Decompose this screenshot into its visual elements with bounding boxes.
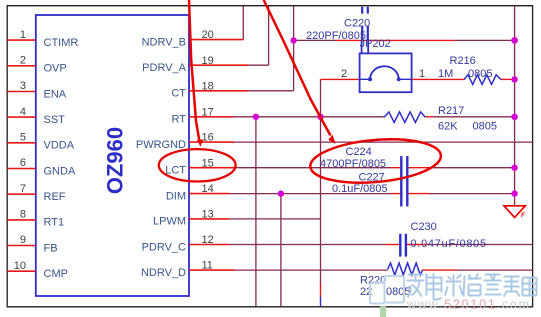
capacitor C230	[400, 221, 486, 257]
wire mid drop vertical x280	[280, 194, 282, 307]
resistor R220	[360, 263, 422, 298]
wire top net horizontal y40 maroon left	[294, 39, 336, 41]
wire LPWM row maroon to x320	[229, 218, 321, 220]
svg-text:6: 6	[20, 157, 26, 169]
pin 1 CTIMR	[7, 29, 78, 49]
wire right bus vertical x514	[514, 6, 516, 206]
svg-text:VDDA: VDDA	[44, 140, 75, 152]
svg-text:OVP: OVP	[44, 63, 67, 75]
pin 6 GNDA	[7, 157, 76, 177]
svg-text:19: 19	[202, 55, 214, 67]
capacitor C224 label	[320, 146, 386, 170]
wire C230 row to frame maroon	[429, 244, 533, 246]
wire pin19 riser to top rail	[268, 6, 270, 65]
svg-text:GNDA: GNDA	[44, 165, 76, 177]
pin 7 REF	[7, 183, 66, 203]
wire R220 right lead red	[422, 269, 457, 271]
svg-text:4: 4	[20, 106, 26, 118]
watermark logo square left	[370, 282, 385, 303]
wire pin20 riser to top rail	[242, 6, 244, 40]
pin 12 PDRV_C	[142, 234, 229, 253]
wire pin18 horizontal	[248, 90, 294, 92]
svg-text:4700PF/0805: 4700PF/0805	[320, 158, 386, 170]
svg-text:2: 2	[20, 55, 26, 67]
svg-text:CT: CT	[171, 88, 186, 100]
svg-text:CTIMR: CTIMR	[44, 37, 79, 49]
capacitor C220 plates lower pair	[362, 26, 368, 40]
svg-text:1: 1	[20, 29, 26, 41]
pin 5 VDDA	[7, 132, 75, 152]
svg-text:PWRGND: PWRGND	[136, 139, 186, 151]
svg-text:14: 14	[202, 183, 214, 195]
wire R220 to frame maroon	[457, 269, 533, 271]
wire C227 to right bus maroon	[429, 193, 515, 195]
svg-text:R220: R220	[360, 275, 386, 287]
pin 9 FB	[7, 234, 57, 254]
svg-text:C230: C230	[411, 221, 437, 233]
wire pin18 riser to top rail through node	[293, 6, 295, 91]
svg-text:LPWM: LPWM	[153, 216, 186, 228]
svg-text:DIM: DIM	[166, 190, 186, 202]
annotation red arrow 2	[264, 0, 336, 144]
wire C230 left lead red	[385, 244, 400, 246]
pin 10 CMP	[7, 260, 68, 280]
svg-text:1M: 1M	[438, 68, 453, 80]
svg-text:PDRV_A: PDRV_A	[142, 62, 186, 74]
svg-text:220PF/0805: 220PF/0805	[306, 30, 366, 42]
svg-text:SST: SST	[44, 114, 66, 126]
svg-text:FB: FB	[44, 242, 58, 254]
wire PWRGND row maroon to frame	[234, 141, 533, 143]
svg-text:0805: 0805	[473, 121, 497, 133]
wire R217 right lead red	[425, 116, 433, 118]
svg-text:R217: R217	[438, 105, 464, 117]
pin 18 CT	[171, 80, 248, 99]
capacitor C224 and C227 shared plates	[401, 156, 407, 206]
wire JP202 pin1 red to R216	[412, 78, 464, 80]
svg-text:0.1uF/0805: 0.1uF/0805	[332, 183, 388, 195]
wire RT row maroon to R217	[233, 116, 384, 118]
watermark logo green tab	[380, 306, 386, 317]
svg-text:PDRV_C: PDRV_C	[142, 241, 186, 253]
svg-text:10: 10	[14, 260, 26, 272]
svg-text:JP202: JP202	[360, 38, 391, 50]
watermark chinese characters	[407, 274, 537, 300]
svg-text:5: 5	[20, 132, 26, 144]
wire LCT row maroon	[236, 167, 391, 169]
connector JP202 leads into box top	[362, 40, 369, 53]
wire NDRV_D row maroon to R220	[235, 269, 388, 271]
pin 19 PDRV_A	[142, 55, 248, 74]
capacitor C220 plates upper pair	[362, 7, 368, 14]
pin 15 LCT	[165, 157, 235, 176]
svg-text:OZ960: OZ960	[102, 127, 127, 194]
svg-text:C220: C220	[344, 18, 370, 30]
svg-text:3: 3	[20, 80, 26, 92]
wire PDRV_C row maroon	[229, 244, 385, 246]
annotation red arrow 1	[189, 0, 203, 147]
annotation red ellipse around C224	[309, 134, 443, 187]
connector JP202 box	[360, 53, 412, 92]
svg-text:C224: C224	[346, 146, 372, 158]
svg-text:REF: REF	[44, 191, 66, 203]
capacitor C220 label	[306, 18, 370, 43]
svg-text:12: 12	[202, 234, 214, 246]
pin 13 LPWM	[153, 209, 229, 228]
svg-text:13: 13	[202, 209, 214, 221]
resistor R217	[384, 105, 497, 133]
svg-text:RT: RT	[172, 114, 187, 126]
svg-text:NDRV_D: NDRV_D	[141, 267, 186, 279]
pin 20 NDRV_B	[142, 29, 244, 48]
svg-text:11: 11	[202, 260, 213, 272]
svg-text:R216: R216	[450, 55, 476, 67]
wire pin19 horizontal	[248, 64, 269, 66]
wire R217 to right bus maroon	[433, 116, 515, 118]
wire C224 right lead red	[407, 167, 429, 169]
svg-text:9: 9	[20, 234, 26, 246]
node junction dots	[253, 37, 518, 197]
wire C224 to right bus maroon	[429, 167, 515, 169]
wire mid drop vertical x255	[255, 117, 257, 307]
pin 8 RT1	[7, 209, 64, 229]
wire C227 right lead red	[407, 193, 429, 195]
wire JP202 pin2 horizontal red	[321, 78, 360, 80]
svg-text:1: 1	[419, 68, 425, 80]
op-amp U1 IC OZ960 body	[36, 15, 189, 296]
pin 16 PWRGND	[136, 132, 234, 151]
capacitor C227 label	[332, 171, 388, 195]
svg-text:ENA: ENA	[44, 88, 67, 100]
wire JP202 pin2 drop vertical x320	[320, 79, 322, 306]
svg-text:62K: 62K	[438, 121, 458, 133]
svg-text:2: 2	[341, 68, 347, 80]
wire C230 right lead red	[406, 244, 429, 246]
svg-text:0.047uF/0805: 0.047uF/0805	[411, 238, 487, 250]
svg-text:18: 18	[202, 80, 214, 92]
pin 17 RT	[172, 106, 233, 125]
pin 3 ENA	[7, 80, 67, 100]
pin 14 DIM	[166, 183, 229, 202]
svg-text:7: 7	[20, 183, 26, 195]
pin 11 NDRV_D	[141, 260, 235, 279]
svg-text:15: 15	[202, 157, 214, 169]
wire C227 left lead red	[391, 193, 402, 195]
svg-text:8: 8	[20, 209, 26, 221]
resistor R216	[438, 55, 515, 84]
svg-text:16: 16	[202, 132, 214, 144]
svg-text:RT1: RT1	[44, 217, 65, 229]
pin 2 OVP	[7, 55, 67, 75]
ground F symbol	[504, 206, 526, 219]
svg-text:20: 20	[202, 29, 214, 41]
annotation red ellipse around LCT	[159, 149, 236, 181]
connector JP202 label	[341, 38, 425, 80]
wire DIM row maroon	[229, 193, 391, 195]
svg-text:LCT: LCT	[165, 165, 186, 177]
wire top net horizontal y40 maroon right	[455, 39, 515, 41]
svg-text:CMP: CMP	[44, 268, 68, 280]
svg-text:0805: 0805	[468, 68, 492, 80]
wire top net horizontal y40 red middle	[336, 39, 455, 41]
svg-text:17: 17	[202, 106, 214, 118]
wire C224 left lead red	[391, 167, 402, 169]
svg-text:0805: 0805	[386, 286, 410, 298]
watermark logo square right	[385, 276, 405, 303]
svg-text:www.520101.com: www.520101.com	[406, 298, 531, 312]
svg-text:NDRV_B: NDRV_B	[142, 36, 186, 48]
pin 4 SST	[7, 106, 65, 126]
